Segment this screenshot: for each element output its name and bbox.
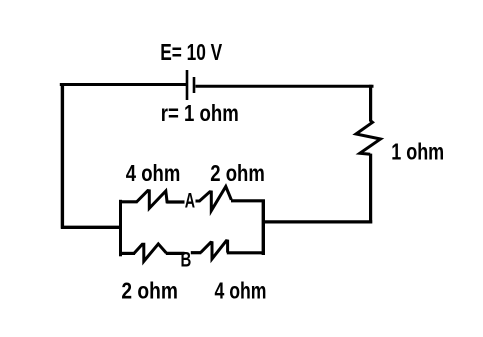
wire top branch right	[231, 199, 265, 202]
svg-text:2 ohm: 2 ohm	[121, 278, 177, 304]
wire bottom branch right	[227, 251, 265, 254]
resistor 4 ohm (bottom branch right)	[201, 241, 228, 259]
wire top-right segment	[196, 85, 374, 88]
wire bottom branch left	[119, 252, 135, 255]
wire top branch left	[119, 200, 138, 203]
svg-text:1 ohm: 1 ohm	[391, 139, 444, 165]
node left bar of parallel block	[119, 200, 122, 256]
svg-text:E= 10 V: E= 10 V	[160, 39, 222, 65]
svg-text:2 ohm: 2 ohm	[210, 160, 264, 186]
battery E short plate	[193, 77, 196, 93]
svg-text:r= 1 ohm: r= 1 ohm	[161, 100, 239, 126]
svg-text:B: B	[181, 248, 192, 271]
wire right vertical upper	[369, 85, 372, 122]
wire bottom branch after B	[191, 251, 201, 254]
resistor 2 ohm (bottom branch left)	[134, 244, 166, 261]
resistor 4 ohm (top branch left)	[137, 191, 168, 209]
wire bottom-right horizontal	[262, 220, 372, 223]
svg-text:4 ohm: 4 ohm	[215, 278, 267, 304]
wire left vertical	[61, 83, 64, 229]
node right bar of parallel block	[262, 200, 265, 256]
resistor 1 ohm (right branch)	[356, 121, 381, 155]
wire bottom branch middle (to node B)	[166, 252, 185, 255]
wire left feed horizontal	[61, 226, 122, 229]
wire top branch middle-left (to node A)	[166, 200, 184, 203]
wire right vertical lower	[369, 154, 372, 224]
wire top-left segment	[60, 83, 186, 86]
resistor 2 ohm (top branch right)	[196, 187, 232, 211]
svg-text:4 ohm: 4 ohm	[126, 160, 181, 186]
battery E long plate	[186, 70, 189, 100]
svg-text:A: A	[185, 190, 195, 213]
